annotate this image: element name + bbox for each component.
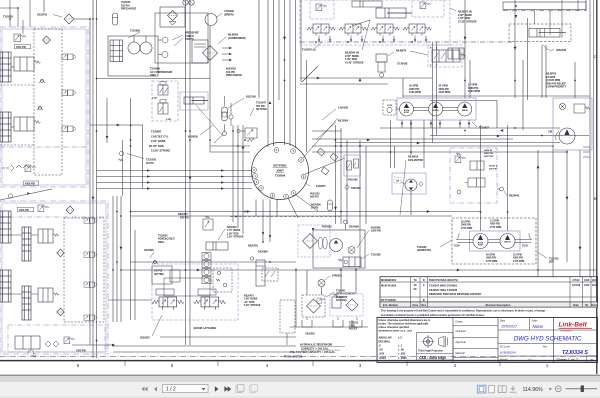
svg-text:63J1300: 63J1300: [246, 96, 256, 99]
svg-text:2000 PSI: 2000 PSI: [484, 153, 493, 155]
svg-text:N4J8670: N4J8670: [396, 50, 407, 53]
main control valve bank lower frame: [0, 201, 108, 354]
svg-text:None: None: [533, 324, 544, 329]
svg-text:G7J0428: G7J0428: [397, 63, 408, 66]
bank2 valve modules: [0, 211, 11, 243]
condenser air flow arrows: [222, 47, 229, 49]
svg-text:HYDRAULIC RESERVOIR: HYDRAULIC RESERVOIR: [300, 343, 332, 347]
dashed box near reservoir: [280, 300, 295, 333]
svg-text:8 GPM PRIORITY: 8 GPM PRIORITY: [546, 86, 567, 89]
svg-text:Check: Check: [591, 305, 599, 307]
svg-text:57.33" STROKE: 57.33" STROKE: [458, 20, 477, 23]
svg-text:M196982004: M196982004: [381, 278, 397, 282]
svg-text:100 PSI: 100 PSI: [154, 271, 163, 273]
toolbar background: [0, 375, 600, 377]
bank2 bottom sub-circuit: [8, 325, 105, 352]
hose reel ports: [202, 253, 211, 260]
title block grid: [377, 318, 598, 363]
svg-text:E1J8675: E1J8675: [316, 185, 326, 188]
svg-text:C R A N E S: C R A N E S: [560, 329, 572, 332]
AC compressor unit T2J0098: [108, 36, 158, 76]
svg-text:± .1: ± .1: [398, 344, 403, 348]
dash-dot boundary lines: [300, 41, 512, 43]
svg-text:D: D: [591, 357, 594, 362]
svg-text:D4J0690: D4J0690: [258, 251, 268, 254]
svg-text:500 PSI: 500 PSI: [310, 196, 319, 199]
cylinder N3J0050 top: [376, 8, 406, 18]
svg-text:C: C: [594, 54, 597, 59]
svg-text:.XX: .XX: [379, 348, 383, 352]
sheet right margin line: [593, 0, 595, 276]
svg-text:.XXX: .XXX: [379, 352, 385, 356]
svg-text:CW: CW: [33, 356, 36, 358]
svg-text:U3J0229: U3J0229: [305, 333, 315, 336]
svg-text:± .06: ± .06: [398, 348, 404, 352]
svg-text:(DRIER): (DRIER): [224, 13, 234, 16]
svg-text:(DOMESTIC): (DOMESTIC): [417, 249, 431, 252]
svg-text:T2J0168: T2J0168: [371, 254, 381, 257]
svg-text:unless otherwise specified.: unless otherwise specified.: [379, 326, 410, 329]
svg-text:2.50" BORE: 2.50" BORE: [151, 139, 166, 143]
svg-text:FAN MOTOR: FAN MOTOR: [408, 159, 423, 162]
svg-text:SETTING: SETTING: [154, 274, 164, 276]
inter-bank wiring: [8, 194, 12, 198]
svg-text:Link-Belt: Link-Belt: [559, 322, 588, 329]
svg-text:2772 RPM: 2772 RPM: [461, 227, 472, 230]
svg-text:ROTATING: ROTATING: [273, 164, 286, 168]
drier JTJ0999: [205, 14, 217, 26]
cooler block P5J0083: [313, 230, 365, 268]
check point T2J0243: [122, 140, 124, 196]
svg-text:Scale: Scale: [532, 319, 539, 322]
svg-text:13.00" STROKE: 13.00" STROKE: [151, 149, 171, 153]
svg-text:D5J0098: D5J0098: [349, 226, 359, 229]
bank1 supply wires: [9, 0, 11, 27]
crawler valve group F1J0076: [300, 0, 450, 45]
accumulator 63J1300: [222, 107, 228, 121]
svg-text:PRECHARGE: PRECHARGE: [121, 8, 137, 11]
valve group right of reel: [262, 268, 278, 281]
toolbar next/last page buttons: [215, 386, 219, 392]
svg-text:L4J9195: L4J9195: [338, 107, 348, 110]
valve N4J0070: [376, 54, 387, 62]
svg-text:CW: CW: [548, 131, 553, 134]
svg-text:2180 RPM: 2180 RPM: [468, 90, 480, 93]
svg-text:Zone: Zone: [412, 304, 419, 307]
svg-text:SETTING: SETTING: [484, 156, 494, 158]
svg-text:CCW: CCW: [387, 105, 393, 107]
svg-text:5.25" STROKE: 5.25" STROKE: [244, 304, 261, 307]
pressure check ports: [162, 37, 168, 43]
svg-text:N3J0 50: N3J0 50: [484, 150, 493, 152]
rotating joint port lines: [97, 170, 253, 172]
rotating joint lower lines: [255, 200, 257, 217]
rotating joint T2J8099: [252, 143, 309, 200]
svg-text:P9J8198: P9J8198: [351, 187, 361, 190]
svg-text:TOTAL SYSTEM: TOTAL SYSTEM: [284, 356, 302, 359]
svg-text:4300 PSI: 4300 PSI: [25, 183, 35, 186]
winch motors: [452, 218, 536, 264]
svg-text:JOINT: JOINT: [276, 169, 284, 173]
svg-text:Rev: Rev: [422, 304, 427, 307]
svg-text:RELIEF: RELIEF: [349, 329, 358, 331]
svg-text:TAL SYSTEM CAPACITY = 215 GAL.: TAL SYSTEM CAPACITY = 215 GAL.: [290, 350, 336, 354]
svg-text:4300 PSI: 4300 PSI: [76, 350, 86, 353]
cylinder N4J0310: [206, 242, 228, 250]
svg-text:2772 RPM: 2772 RPM: [490, 226, 501, 229]
svg-text:T2J0037: T2J0037: [479, 127, 489, 130]
svg-text:JGC: JGC: [592, 279, 597, 282]
sheet right border: [596, 0, 598, 374]
svg-text:C: C: [423, 284, 425, 287]
svg-text:Sheet 1 of 2: Sheet 1 of 2: [556, 357, 578, 362]
svg-text:T2J0334 S: T2J0334 S: [562, 350, 588, 356]
svg-text:20 PSI: 20 PSI: [311, 207, 319, 210]
svg-text:T2J0987: T2J0987: [151, 130, 162, 134]
svg-text:4500 PSI: 4500 PSI: [19, 209, 29, 212]
svg-text:J9A0133: J9A0133: [556, 49, 567, 52]
svg-text:PORTS: PORTS: [185, 38, 194, 41]
vertical bus wires: [89, 19, 91, 345]
svg-text:1 / 2: 1 / 2: [166, 387, 176, 393]
svg-text:E.O. Number: E.O. Number: [383, 304, 398, 307]
svg-text:P5J0083: P5J0083: [322, 226, 332, 229]
svg-text:This drawing is the property o: This drawing is the property of Link-Bel…: [381, 309, 546, 312]
svg-text:Approval: Approval: [456, 340, 467, 344]
wire junctions: [92, 18, 94, 20]
receiver drier filter and AC loop: [160, 7, 185, 27]
svg-text:1.50" ROD: 1.50" ROD: [151, 144, 164, 148]
valve T2J0547: [245, 128, 257, 138]
svg-text:2160 RPM: 2160 RPM: [409, 91, 421, 94]
svg-text:114.96%: 114.96%: [523, 387, 543, 393]
valve block P9J8449: [450, 148, 497, 203]
svg-text:CAPACITY = 144 GAL.: CAPACITY = 144 GAL.: [301, 346, 329, 350]
svg-text:Third Angle Projection: Third Angle Projection: [418, 349, 443, 352]
svg-text:CCW: CCW: [454, 246, 460, 248]
svg-text:65J8630: 65J8630: [188, 136, 198, 139]
svg-text:Date: Date: [573, 304, 579, 307]
svg-text:D4J0696: D4J0696: [144, 249, 154, 252]
svg-text:(CONDENSER): (CONDENSER): [228, 37, 246, 40]
svg-text:1.25" STROKE: 1.25" STROKE: [227, 236, 244, 239]
svg-text:2160 RPM: 2160 RPM: [439, 91, 451, 94]
svg-text:27J0225: 27J0225: [349, 323, 359, 325]
svg-text:2175 RPM: 2175 RPM: [513, 260, 524, 263]
svg-text:0.652: 0.652: [166, 119, 172, 121]
svg-text:D7J0148): D7J0148): [336, 299, 347, 302]
sheet margin dash-dot line: [0, 355, 598, 357]
svg-text:WINCH: WINCH: [432, 110, 439, 112]
svg-text:1650 PSI: 1650 PSI: [371, 230, 381, 233]
svg-text:CCW: CCW: [522, 246, 528, 248]
svg-text:5 PSI: 5 PSI: [349, 326, 355, 328]
svg-text:D: D: [423, 279, 425, 282]
svg-text:DWG HYD SCHEMATIC: DWG HYD SCHEMATIC: [514, 335, 582, 342]
svg-text:2175 RPM: 2175 RPM: [486, 260, 497, 263]
svg-text:B: B: [594, 196, 597, 201]
svg-text:4C: 4C: [414, 284, 417, 287]
svg-text:CAD - Solid Edge: CAD - Solid Edge: [419, 356, 446, 360]
svg-text:EAR: EAR: [584, 279, 589, 282]
check 65J8630: [229, 115, 233, 119]
element D4J0690: [256, 260, 265, 286]
svg-text:Material: Material: [456, 351, 466, 355]
accumulator 63J0228: [112, 13, 117, 25]
svg-text:2/7/19: 2/7/19: [573, 279, 581, 282]
svg-text:200 PSI: 200 PSI: [180, 216, 189, 219]
valve row drops: [318, 36, 320, 43]
toolbar page number box: [163, 385, 209, 393]
toolbar page display mode buttons: [477, 385, 486, 393]
svg-text:M187451003: M187451003: [381, 283, 397, 287]
svg-text:P5J0166: P5J0166: [348, 179, 358, 182]
svg-text:Drawn: Drawn: [456, 320, 464, 324]
svg-text:Weight: Weight: [500, 358, 508, 361]
svg-text:N3J8708: N3J8708: [248, 245, 258, 248]
svg-text:T2J0528: T2J0528: [3, 16, 13, 19]
zone tick marks: [124, 362, 126, 367]
svg-text:DECIMAL: DECIMAL: [379, 339, 391, 343]
svg-text:Checked: Checked: [456, 329, 467, 333]
svg-text:30 PSI: 30 PSI: [146, 162, 154, 165]
svg-text:SETTING: SETTING: [256, 108, 267, 111]
svg-text:T2J0369: T2J0369: [130, 30, 140, 33]
pump group T2J0037: [397, 98, 476, 120]
toolbar view history buttons: [236, 386, 243, 393]
main control valve bank upper (T2J0528): [0, 27, 88, 187]
revision table: [380, 277, 598, 307]
svg-text:.XXXX: .XXXX: [379, 356, 387, 360]
svg-text:N3J2054: N3J2054: [338, 120, 349, 123]
svg-text:T2J0347 WAS D7J0561: T2J0347 WAS D7J0561: [429, 283, 458, 287]
svg-text:WINCH: WINCH: [504, 242, 511, 244]
svg-text:Revision Description: Revision Description: [486, 304, 511, 307]
svg-text:-----: -----: [528, 358, 532, 361]
svg-text:10/5/2017: 10/5/2017: [501, 325, 518, 329]
bank2 pilot valves: [84, 218, 97, 223]
valve N4J8670: [428, 45, 462, 67]
outrigger cylinder J9A0133: [503, 2, 586, 10]
svg-text:41.43" STROKE: 41.43" STROKE: [345, 61, 364, 64]
svg-text:BOOM LATCHING: BOOM LATCHING: [194, 326, 217, 330]
svg-text:ANGULAR: ANGULAR: [379, 335, 392, 339]
fan motor N3J8914: [392, 173, 426, 194]
svg-text:S2J8702: S2J8702: [37, 14, 48, 17]
svg-text:EAR: EAR: [584, 284, 589, 287]
svg-text:UNIT: UNIT: [150, 74, 156, 77]
svg-text:Date: Date: [500, 319, 506, 322]
hydraulic reservoir: [295, 268, 297, 327]
svg-text:T2J8099: T2J8099: [275, 174, 286, 178]
svg-text:4500 PSI: 4500 PSI: [16, 46, 26, 49]
svg-text:REFERENCE ASME Y14.5 - 2009: REFERENCE ASME Y14.5 - 2009: [379, 330, 413, 333]
svg-text:P5J01 6: P5J01 6: [489, 166, 498, 168]
svg-text:R177410005: R177410005: [381, 298, 396, 302]
valve P5J0166: [344, 155, 361, 176]
svg-text:SWING: SWING: [462, 110, 469, 112]
svg-text:(XP): (XP): [549, 261, 554, 264]
svg-text:JGC: JGC: [592, 284, 597, 287]
aux pump CW: [553, 98, 592, 150]
condenser N0J8450: [192, 40, 208, 63]
svg-text:REMOVED PREVIOUS REVISION HIST: REMOVED PREVIOUS REVISION HISTORY: [429, 292, 482, 296]
flow arrows: [117, 124, 120, 127]
svg-text:CAB TILT CYL: CAB TILT CYL: [151, 134, 169, 138]
svg-text:REEL: REEL: [158, 241, 165, 244]
svg-text:U6J0007 WAS T4J0228: U6J0007 WAS T4J0228: [429, 288, 458, 292]
svg-text:EO Level: EO Level: [500, 345, 510, 348]
svg-text:M196982004: M196982004: [500, 350, 516, 354]
svg-text:5000 PSI WAS 4643 PSI: 5000 PSI WAS 4643 PSI: [429, 278, 458, 282]
svg-text:0.647: 0.647: [152, 97, 158, 100]
svg-text:.X: .X: [379, 344, 382, 348]
sheet bottom border: [0, 360, 598, 362]
boom latching group: [152, 264, 238, 320]
svg-text:S0J6578: S0J6578: [140, 337, 150, 340]
svg-text:12/4/18: 12/4/18: [572, 284, 581, 287]
horizontal bus wires: [74, 18, 90, 20]
svg-text:6C: 6C: [414, 288, 417, 291]
svg-text:PRECHARGE: PRECHARGE: [226, 74, 242, 77]
toolbar first/prev page buttons: [142, 387, 148, 392]
svg-text:P9J8449: P9J8449: [509, 195, 520, 198]
svg-text:± .005: ± .005: [398, 352, 406, 356]
svg-text:7C: 7C: [414, 279, 417, 282]
svg-text:F1J0076 (2): F1J0076 (2): [302, 49, 316, 52]
component left of outriggers: [448, 48, 464, 59]
svg-text:± .0005: ± .0005: [398, 356, 407, 360]
svg-text:-------: -------: [472, 358, 479, 362]
svg-text:500 PSI: 500 PSI: [489, 168, 497, 170]
svg-text:and details contained herein i: and details contained herein is prohibit…: [381, 314, 485, 317]
svg-text:± 1°: ± 1°: [398, 335, 403, 339]
svg-text:CW: CW: [396, 181, 399, 183]
cab tilt valve and cylinder (T2J0987): [152, 81, 178, 121]
svg-text:B: B: [423, 299, 425, 302]
